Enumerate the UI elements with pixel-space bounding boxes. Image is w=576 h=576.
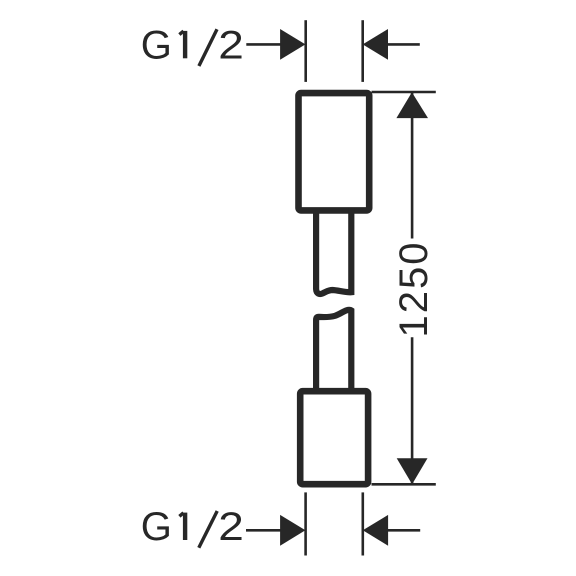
top hose fitting — [299, 93, 370, 210]
svg-text:2: 2 — [218, 505, 244, 549]
extension line 1250 top — [372, 91, 436, 94]
arrowhead bottom-left pointing right — [280, 515, 305, 546]
arrowhead 1250 up — [396, 92, 428, 118]
extension tick top-right — [361, 20, 364, 82]
label G1/2 bottom — [141, 505, 244, 549]
dimension line 1250 lower segment — [411, 337, 414, 483]
dimension line 1250 upper segment — [411, 93, 414, 239]
hose tube upper segment with break wave — [316, 208, 351, 294]
arrowhead bottom-right pointing left — [363, 515, 388, 546]
dimension leader line top-right — [387, 43, 420, 46]
dimension leader line bottom-right — [387, 529, 420, 532]
svg-text:G: G — [141, 505, 172, 549]
dimension leader line bottom-left — [246, 529, 282, 532]
dimension leader line top-left — [246, 43, 282, 46]
extension tick bottom-right — [361, 492, 364, 555]
extension tick top-left — [304, 20, 307, 82]
extension line 1250 bottom — [372, 483, 436, 486]
svg-text:G: G — [141, 23, 172, 67]
extension tick bottom-left — [304, 492, 307, 555]
svg-text:2: 2 — [218, 23, 244, 67]
bottom hose fitting — [300, 391, 368, 484]
arrowhead 1250 down — [397, 458, 428, 484]
arrowhead top-right pointing left — [363, 29, 388, 60]
label G1/2 top — [141, 23, 244, 67]
svg-text:1250: 1250 — [392, 241, 436, 338]
arrowhead top-left pointing right — [280, 29, 305, 60]
hose tube lower segment with break wave — [316, 310, 351, 392]
